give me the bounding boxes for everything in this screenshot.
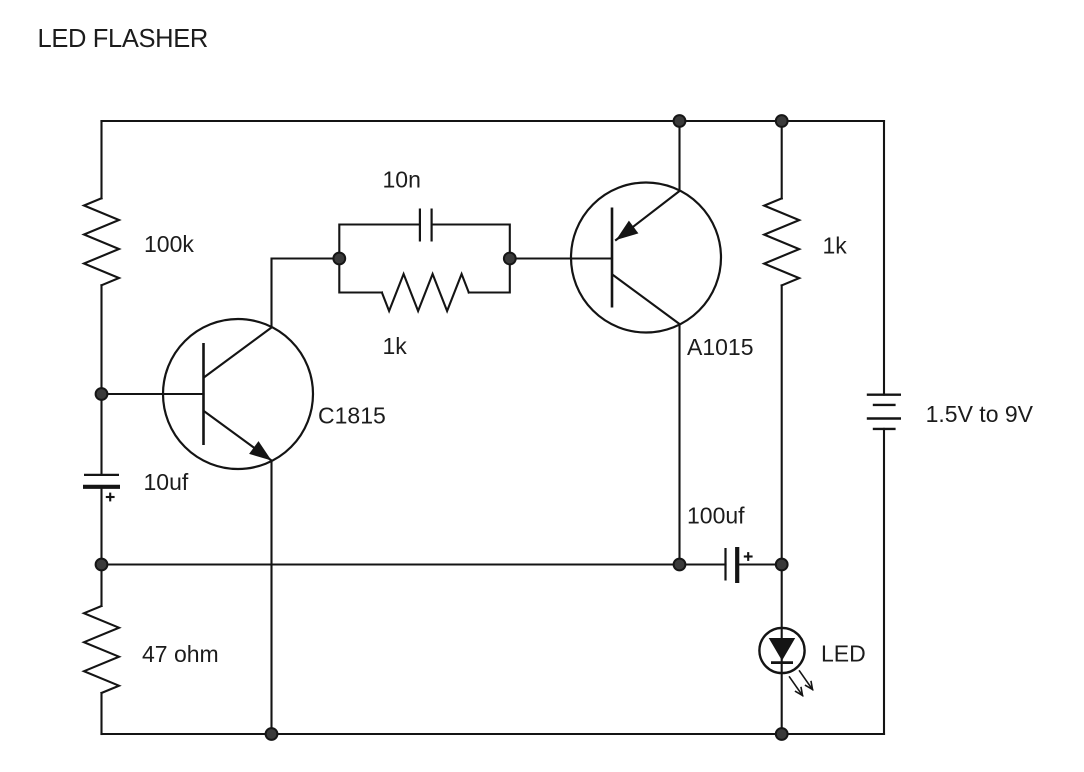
svg-text:1.5V to 9V: 1.5V to 9V — [926, 401, 1034, 427]
battery BT1 — [867, 395, 901, 429]
wire right rail upper — [883, 121, 885, 395]
junction left mid node — [96, 559, 108, 571]
svg-text:LED: LED — [821, 641, 866, 667]
capacitor C1 10n — [420, 209, 432, 242]
capacitor C3 100uf — [680, 547, 782, 583]
LED light arrows — [790, 671, 813, 696]
wire left rail between C2 and 47ohm — [100, 487, 102, 606]
resistor R4 47ohm — [84, 606, 119, 693]
junction RC right node — [504, 253, 516, 265]
svg-text:1k: 1k — [823, 233, 848, 259]
wire RC bottom branch left — [339, 259, 382, 293]
junction top rail 1k — [776, 115, 788, 127]
junction left base node — [96, 388, 108, 400]
svg-text:100k: 100k — [144, 231, 194, 257]
LED D1 — [759, 628, 804, 673]
junction 100uf right node — [776, 559, 788, 571]
transistor Q2 A1015 — [571, 183, 721, 333]
junction bottom rail emitter — [266, 728, 278, 740]
wire 1k right lower — [781, 285, 783, 564]
junction 100uf left node — [674, 559, 686, 571]
wire RC top branch left — [339, 225, 420, 259]
wire RC bottom branch right — [469, 259, 510, 293]
wire C1815 collector up — [272, 259, 340, 328]
junction top rail A1015 — [674, 115, 686, 127]
wire bottom rail — [102, 733, 885, 735]
wire C1815 base lead — [102, 393, 204, 395]
svg-text:100uf: 100uf — [687, 503, 745, 529]
wire right rail lower — [883, 429, 885, 734]
wire RC top branch right — [432, 225, 510, 259]
svg-text:10n: 10n — [383, 167, 421, 193]
resistor R2 1k — [382, 274, 469, 311]
wire left rail lower — [100, 693, 102, 734]
svg-text:10uf: 10uf — [144, 469, 189, 495]
wire 1k right upper — [781, 121, 783, 198]
wire mid row left — [102, 563, 680, 565]
capacitor C2 10uf — [83, 475, 120, 502]
svg-text:C1815: C1815 — [318, 402, 386, 428]
svg-text:1k: 1k — [383, 333, 408, 359]
svg-text:LED FLASHER: LED FLASHER — [38, 25, 208, 53]
junction bottom rail LED — [776, 728, 788, 740]
wire left rail upper — [100, 121, 102, 198]
wire C1815 emitter down — [270, 461, 272, 735]
transistor Q1 C1815 — [163, 319, 313, 469]
resistor R1 100k — [84, 198, 119, 285]
wire left rail between 100k and C2 — [100, 285, 102, 474]
resistor R3 1k — [764, 198, 799, 285]
wire top rail — [102, 120, 885, 122]
junction RC left node — [333, 253, 345, 265]
svg-text:A1015: A1015 — [687, 334, 754, 360]
wire LED branch — [781, 565, 783, 735]
wire A1015 base lead — [510, 257, 612, 259]
wire A1015 collector down — [678, 324, 680, 565]
svg-text:47 ohm: 47 ohm — [142, 641, 219, 667]
wire A1015 emitter up — [678, 121, 680, 191]
